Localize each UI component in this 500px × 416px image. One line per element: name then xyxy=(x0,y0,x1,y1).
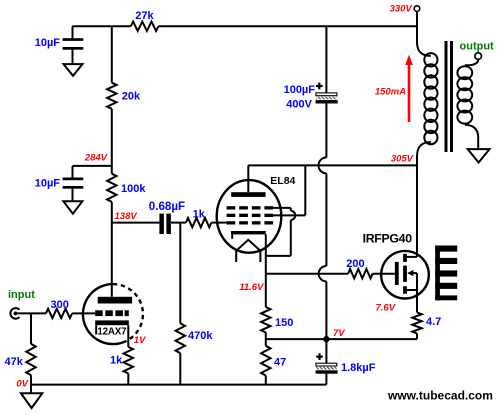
svg-text:www.tubecad.com: www.tubecad.com xyxy=(387,389,493,403)
svg-text:47: 47 xyxy=(274,356,286,368)
svg-text:400V: 400V xyxy=(286,99,312,111)
svg-text:1V: 1V xyxy=(134,335,146,346)
svg-text:305V: 305V xyxy=(391,153,414,164)
svg-text:27k: 27k xyxy=(135,10,154,22)
svg-text:7.6V: 7.6V xyxy=(376,303,396,314)
svg-text:output: output xyxy=(460,40,495,52)
svg-text:7V: 7V xyxy=(333,328,345,339)
svg-text:11.6V: 11.6V xyxy=(239,282,264,293)
svg-text:10µF: 10µF xyxy=(35,37,61,49)
svg-text:100k: 100k xyxy=(121,183,146,195)
svg-text:4.7: 4.7 xyxy=(426,316,441,328)
svg-text:300: 300 xyxy=(51,299,69,311)
svg-text:138V: 138V xyxy=(115,211,138,222)
svg-text:20k: 20k xyxy=(122,90,141,102)
svg-text:0V: 0V xyxy=(16,378,28,389)
svg-text:330V: 330V xyxy=(390,4,413,15)
svg-text:10µF: 10µF xyxy=(35,178,61,190)
svg-text:12AX7: 12AX7 xyxy=(97,327,127,338)
svg-text:IRFPG40: IRFPG40 xyxy=(363,231,413,245)
svg-text:47k: 47k xyxy=(5,356,24,368)
svg-text:0.68µF: 0.68µF xyxy=(149,200,185,213)
svg-text:input: input xyxy=(8,289,35,301)
svg-text:100µF: 100µF xyxy=(284,84,316,96)
svg-text:EL84: EL84 xyxy=(270,175,295,187)
svg-text:470k: 470k xyxy=(188,330,213,342)
svg-text:284V: 284V xyxy=(84,153,108,164)
svg-text:1.8kµF: 1.8kµF xyxy=(341,362,376,374)
svg-text:150: 150 xyxy=(275,317,293,329)
svg-text:150mA: 150mA xyxy=(375,86,406,97)
svg-text:1k: 1k xyxy=(193,208,206,220)
svg-text:200: 200 xyxy=(346,258,364,270)
svg-text:1k: 1k xyxy=(110,355,123,367)
